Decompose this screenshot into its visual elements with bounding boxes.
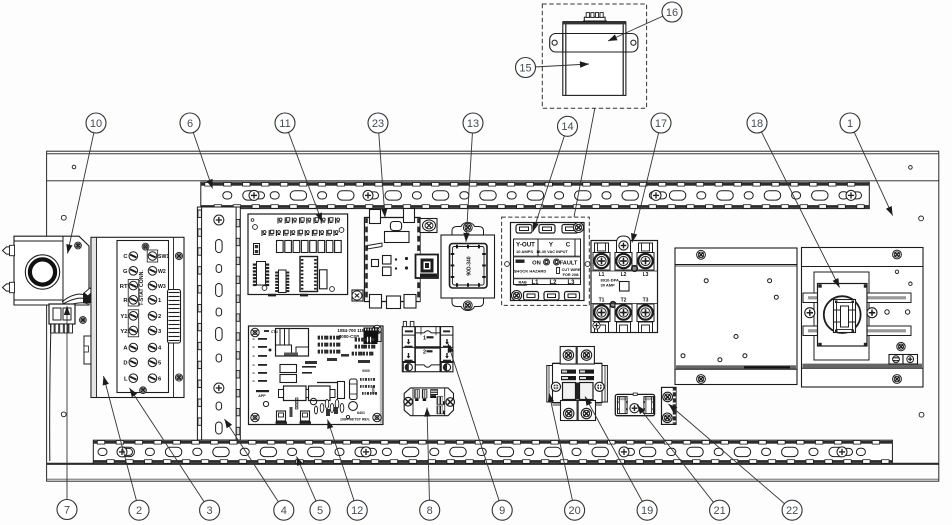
svg-text:CTN: CTN [271,330,278,334]
svg-text:90D-340: 90D-340 [467,256,473,275]
svg-text:15: 15 [519,62,531,74]
svg-text:T1: T1 [599,298,605,304]
svg-text:1: 1 [423,336,426,342]
svg-text:19: 19 [641,505,653,517]
svg-text:20: 20 [568,505,580,517]
svg-text:T2: T2 [621,298,627,304]
svg-text:W2: W2 [158,269,166,275]
svg-text:L2: L2 [549,280,557,286]
svg-text:APP: APP [258,394,266,398]
svg-text:W3: W3 [158,284,166,290]
svg-text:RAB: RAB [519,281,527,285]
svg-text:9: 9 [499,505,505,517]
svg-text:1084-700 1150: 1084-700 1150 [337,328,367,333]
svg-text:8: 8 [427,505,433,517]
svg-text:22: 22 [786,505,798,517]
svg-text:L2: L2 [621,272,627,278]
svg-text:FOR 208:: FOR 208: [563,273,580,277]
svg-text:1: 1 [847,118,853,130]
svg-text:10: 10 [90,118,102,130]
svg-text:C: C [566,242,571,249]
svg-text:Y-OUT: Y-OUT [516,242,535,249]
svg-text:5: 5 [317,505,323,517]
svg-text:FAULT: FAULT [560,260,578,266]
svg-text:2: 2 [423,350,426,356]
svg-text:3: 3 [207,505,213,517]
svg-text:L3: L3 [567,280,575,286]
svg-text:2: 2 [158,314,161,320]
svg-text:CUT WIRE: CUT WIRE [562,268,581,272]
svg-text:T3: T3 [643,298,649,304]
svg-text:1084-98/TST REV.: 1084-98/TST REV. [340,418,370,422]
svg-text:RT: RT [120,284,128,290]
svg-text:30 AMP: 30 AMP [601,283,616,288]
svg-text:Y2: Y2 [120,329,127,335]
svg-text:8000: 8000 [372,386,376,394]
svg-text:7: 7 [64,504,70,516]
svg-text:T-STAT CONN.: T-STAT CONN. [139,270,145,306]
svg-text:L: L [124,376,128,382]
svg-text:17: 17 [655,118,667,130]
svg-text:SHOCK HAZARD: SHOCK HAZARD [514,268,547,273]
svg-text:0000: 0000 [362,369,370,373]
svg-text:G: G [123,269,128,275]
svg-text:13: 13 [467,118,479,130]
svg-text:L3: L3 [643,272,649,278]
svg-text:12: 12 [351,505,363,517]
svg-text:Y1: Y1 [120,314,128,320]
svg-text:10 AMPS: 10 AMPS [516,249,533,254]
svg-text:16: 16 [666,7,678,19]
svg-text:8401: 8401 [357,411,365,415]
svg-text:L1: L1 [531,280,539,286]
svg-text:2: 2 [136,505,142,517]
svg-text:18-30 VAC INPUT: 18-30 VAC INPUT [536,249,568,254]
svg-text:ON: ON [532,260,541,266]
svg-text:23: 23 [372,118,384,130]
svg-text:18: 18 [751,118,763,130]
svg-text:21: 21 [713,505,725,517]
svg-text:SW1: SW1 [158,254,169,260]
svg-text:6: 6 [187,118,193,130]
svg-text:14: 14 [561,121,573,133]
svg-text:11: 11 [279,118,290,130]
svg-text:D: D [123,361,127,367]
svg-text:4: 4 [281,505,287,517]
